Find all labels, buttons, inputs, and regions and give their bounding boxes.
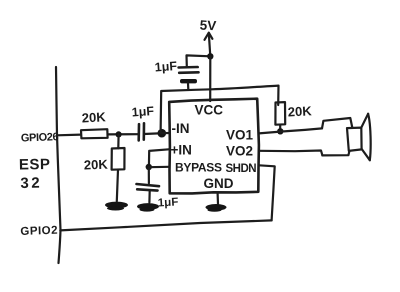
svg-text:20K: 20K (287, 103, 312, 119)
svg-text:BYPASS: BYPASS (175, 161, 222, 175)
node junction bypass (146, 164, 152, 170)
wire SHDN pin to GPIO2 (259, 165, 275, 220)
svg-text:20K: 20K (81, 109, 106, 125)
svg-text:5V: 5V (199, 18, 216, 34)
wire R1 to C1 (108, 133, 139, 135)
svg-text:SHDN: SHDN (226, 163, 257, 175)
ground (below R2) (105, 202, 128, 209)
wire GPIO26 to R1 (57, 134, 81, 137)
node junction divider (116, 131, 122, 137)
svg-text:VO1: VO1 (226, 128, 254, 143)
node junction VO1/R3 (277, 128, 283, 134)
wire BYPASS pin (149, 166, 169, 169)
svg-text:-IN: -IN (172, 121, 190, 136)
ground (below C3) (137, 203, 159, 210)
speaker LS1 driver square (347, 128, 362, 151)
svg-text:20K: 20K (84, 157, 109, 173)
speaker LS1 body bracket top (322, 118, 352, 128)
node -IN junction (158, 129, 167, 138)
svg-text:VCC: VCC (195, 103, 224, 118)
wire +IN pin (149, 149, 169, 167)
speaker LS1 body bottom edge (322, 151, 349, 155)
svg-text:GPIO2: GPIO2 (20, 225, 58, 238)
ground (below IC GND) (206, 204, 227, 211)
svg-text:GND: GND (204, 176, 234, 191)
svg-text:1μF: 1μF (158, 196, 179, 209)
svg-text:+IN: +IN (171, 143, 192, 158)
wire GND pin (217, 193, 220, 204)
speaker LS1 cone (361, 114, 368, 128)
svg-text:GPIO26: GPIO26 (21, 131, 59, 144)
svg-text:1μF: 1μF (131, 104, 155, 120)
wire GPIO2 bottom run (60, 220, 271, 230)
svg-text:32: 32 (20, 175, 42, 192)
resistor R2 20K (to ground) (117, 134, 119, 148)
resistor R3 20K (feedback) (275, 102, 285, 125)
wire VO1 to speaker (259, 128, 322, 133)
wire feedback rail (to -IN) (161, 86, 279, 133)
capacitor C3 1uF (bypass) (148, 167, 150, 183)
wire VCC supply line (209, 56, 211, 101)
node junction 5V (207, 53, 213, 59)
capacitor C1 1uF (series coupling) (137, 124, 140, 140)
op-amp U1 audio amplifier IC body (169, 99, 259, 194)
svg-text:VO2: VO2 (226, 144, 253, 159)
wire ESP32 module left bus line (56, 67, 61, 263)
resistor R1 20K (series input) (81, 129, 108, 138)
svg-text:1μF: 1μF (154, 59, 178, 75)
capacitor C2 1uF (supply decoupling) (187, 55, 211, 66)
svg-text:ESP: ESP (19, 156, 51, 174)
wire VO2 to speaker (259, 151, 322, 156)
